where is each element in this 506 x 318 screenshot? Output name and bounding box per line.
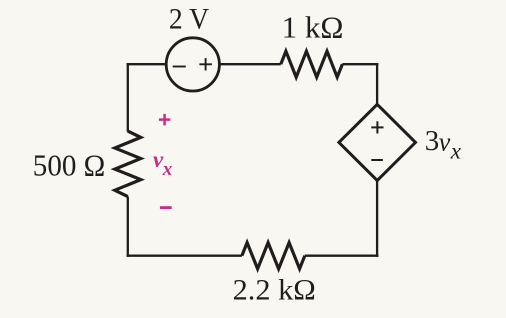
wire left vertical upper [127,63,129,132]
V1 minus sign [173,66,186,68]
resistor R1 500 ohm zigzag [115,131,141,196]
wire top-left horizontal [127,63,168,65]
wire between source and R2 [219,63,281,65]
svg-text:2.2 kΩ: 2.2 kΩ [233,273,316,306]
svg-text:3: 3 [425,125,440,157]
vx plus sign magenta [159,114,171,126]
resistor R3 2.2 kohm zigzag [242,243,305,269]
svg-text:1 kΩ: 1 kΩ [282,10,344,45]
wire right vertical lower [376,181,378,257]
svg-text:2 V: 2 V [169,3,210,36]
wire top right [342,63,378,65]
wire bottom right [305,255,379,257]
resistor R2 1 kohm zigzag [281,51,343,77]
wire right vertical upper [376,63,378,104]
wire left vertical lower [127,197,129,257]
svg-text:v: v [439,127,451,156]
svg-text:x: x [450,139,462,164]
wire bottom left [127,255,242,257]
svg-text:500 Ω: 500 Ω [33,147,106,182]
dependent source U1 diamond [339,104,416,180]
vx minus sign magenta [160,206,172,209]
V1 plus sign [199,58,212,70]
U1 minus sign [371,159,383,161]
voltage source V1 circle [166,38,219,91]
svg-text:x: x [162,159,173,180]
U1 plus sign [371,121,383,133]
